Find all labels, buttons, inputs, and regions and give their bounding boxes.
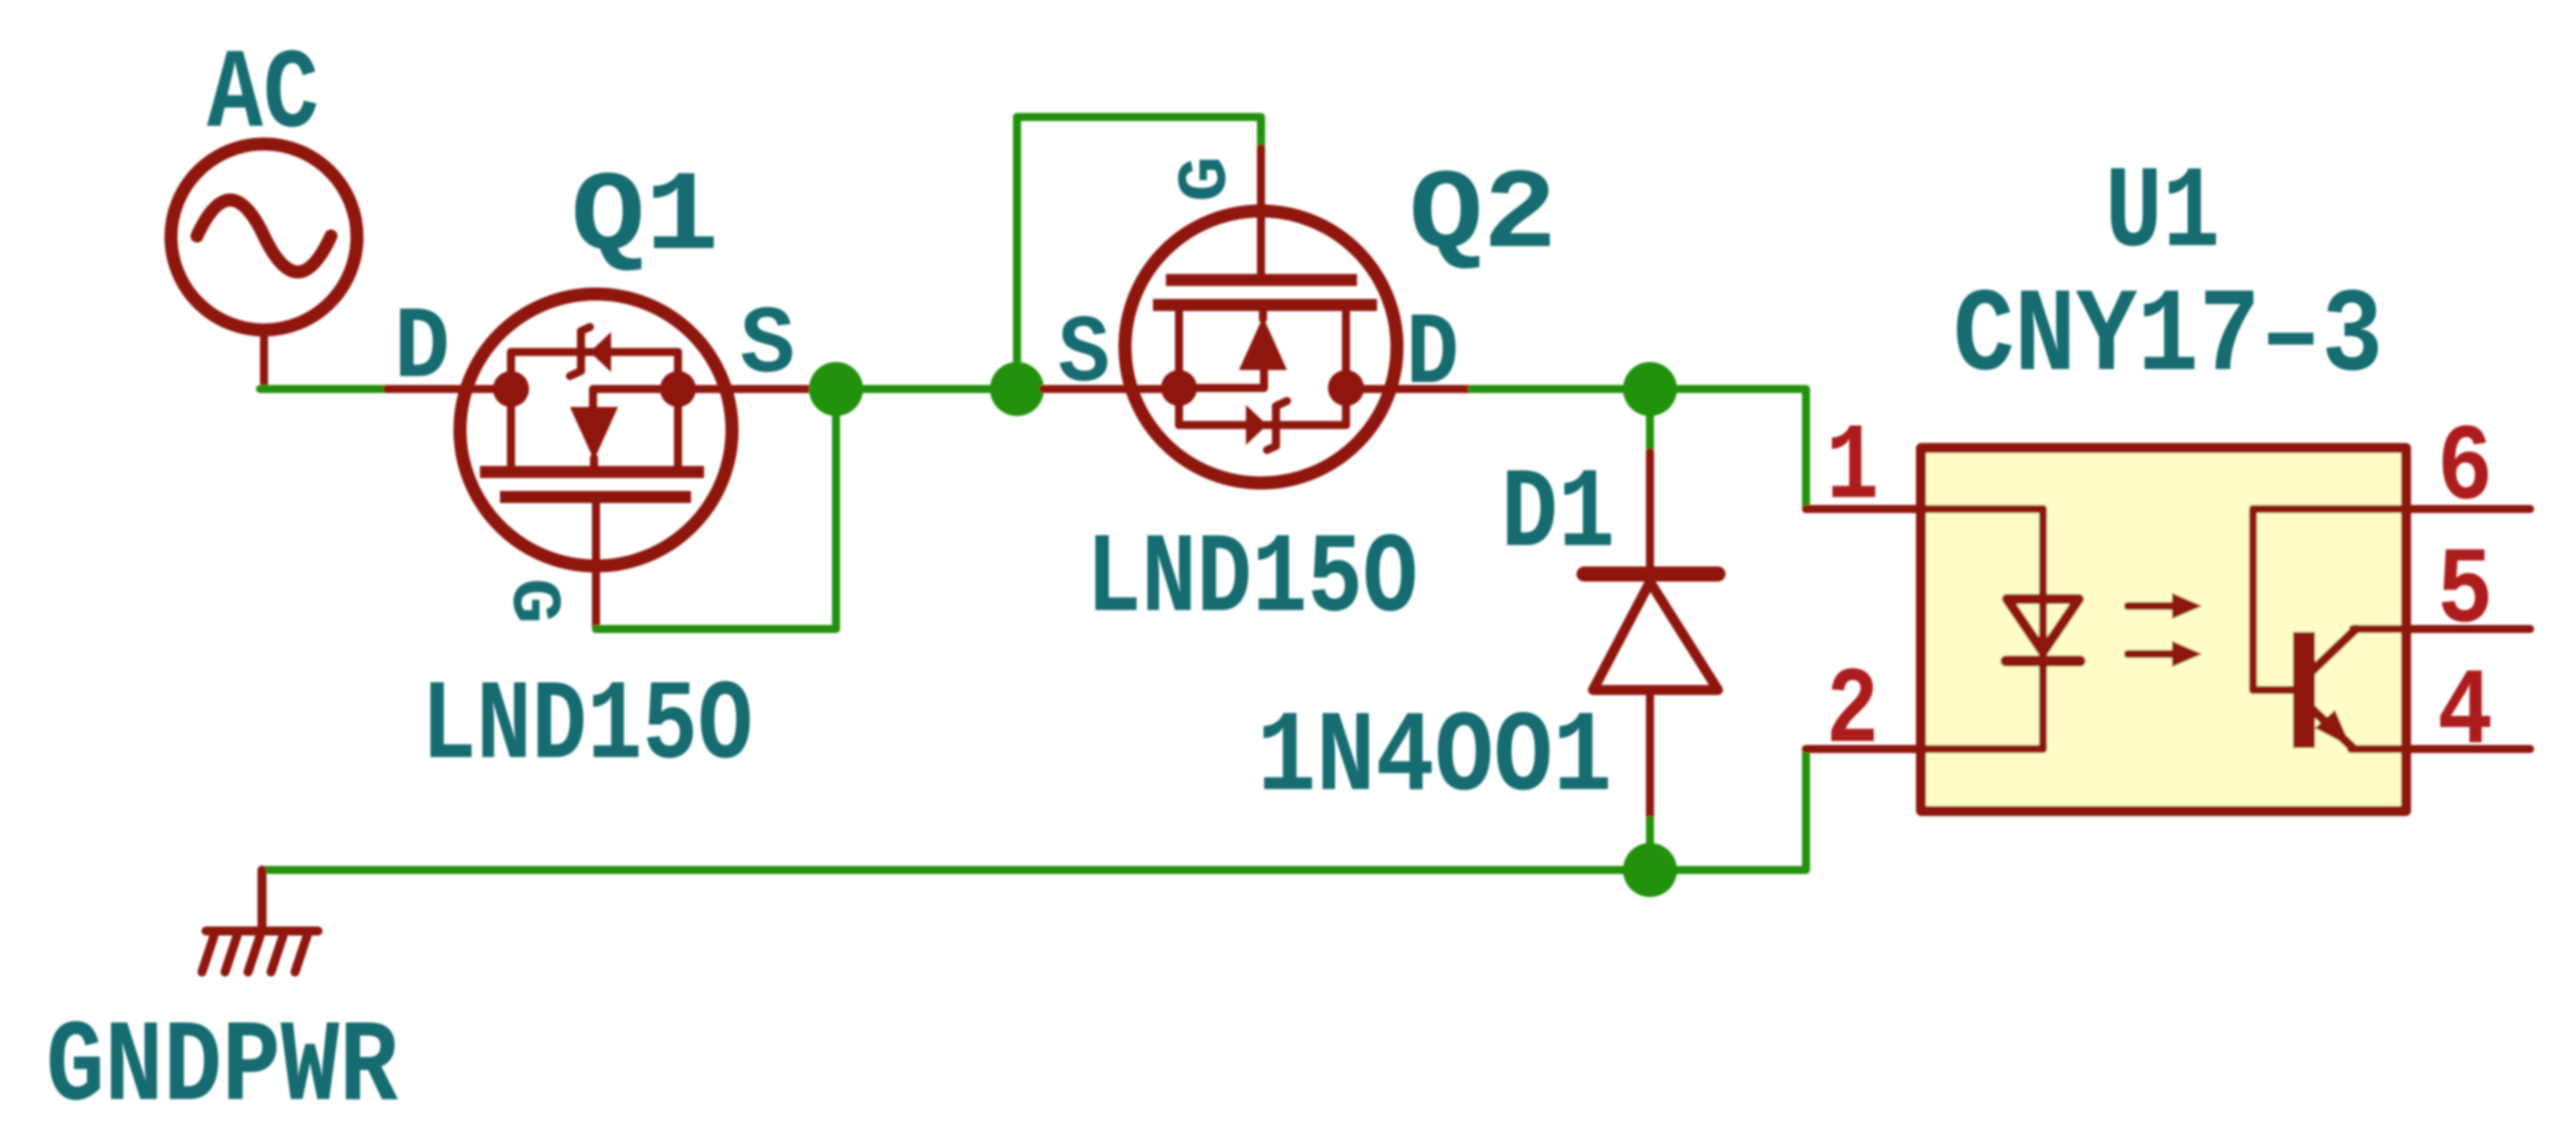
- ground GNDPWR: [202, 870, 318, 972]
- optocoupler U1 pin 2 stub: [1806, 745, 1921, 753]
- junction node D (ground rail): [1623, 843, 1677, 897]
- wire node C to U1 pin 1: [1650, 389, 1806, 509]
- svg-text:Q1: Q1: [571, 154, 719, 282]
- transistor Q2 pin S stub: [1043, 385, 1179, 393]
- svg-text:D1: D1: [1501, 451, 1615, 579]
- svg-text:CNY17–3: CNY17–3: [1953, 270, 2383, 405]
- svg-text:G: G: [1168, 156, 1247, 202]
- junction node B (Q2 source): [990, 362, 1044, 416]
- junction node C (top of D1): [1623, 362, 1677, 416]
- wire D1 to ground rail: [1646, 820, 1654, 872]
- svg-text:D: D: [1406, 297, 1459, 413]
- wire Q1 gate loop: [596, 389, 836, 629]
- optocoupler U1 body: [1921, 448, 2406, 811]
- svg-text:S: S: [1058, 300, 1110, 409]
- optocoupler U1 pin 1 stub: [1806, 505, 1921, 513]
- svg-text:D: D: [394, 291, 450, 407]
- ac source AC1: [171, 144, 357, 388]
- diode D1: [1584, 452, 1718, 820]
- svg-text:AC: AC: [207, 32, 319, 160]
- svg-text:LND15O: LND15O: [421, 663, 753, 791]
- transistor Q1 body: [460, 294, 812, 629]
- U1 pin 6 line: [2406, 505, 2530, 513]
- svg-text:5: 5: [2437, 530, 2493, 654]
- U1 pin 4 line: [2351, 745, 2530, 753]
- wire ground rail: [262, 749, 1806, 870]
- svg-text:2: 2: [1826, 650, 1879, 774]
- wire node B to Q2 gate: [1017, 117, 1261, 389]
- svg-text:1: 1: [1826, 406, 1879, 530]
- U1 light arrows: [2128, 593, 2202, 667]
- wire Q2 drain to node C: [1472, 385, 1650, 393]
- transistor Q2 body: [1125, 148, 1475, 483]
- U1 pin 5 line: [2353, 625, 2530, 633]
- svg-text:LND15O: LND15O: [1086, 516, 1418, 644]
- svg-text:Q2: Q2: [1409, 152, 1557, 280]
- U1 internal LED: [1921, 509, 2080, 749]
- transistor Q1 pin D stub: [387, 385, 511, 393]
- wire node A to node B: [836, 385, 1017, 393]
- wire AC to Q1 drain: [260, 385, 390, 393]
- svg-text:G: G: [492, 578, 571, 624]
- junction node A (Q1 source): [809, 362, 863, 416]
- svg-text:1N4OO1: 1N4OO1: [1257, 693, 1612, 824]
- svg-text:U1: U1: [2105, 148, 2220, 280]
- wire node C down to D1: [1646, 389, 1654, 452]
- svg-text:6: 6: [2437, 407, 2493, 531]
- svg-text:S: S: [740, 291, 795, 400]
- svg-text:GNDPWR: GNDPWR: [46, 1002, 398, 1126]
- U1 phototransistor: [2253, 509, 2406, 748]
- svg-text:4: 4: [2437, 651, 2493, 775]
